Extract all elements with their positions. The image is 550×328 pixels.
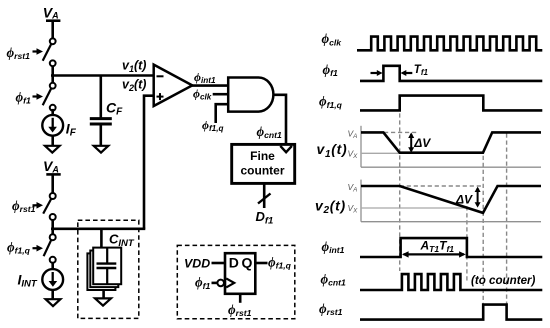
v1 VX gray line [361,152,483,154]
ground (under CINT) [95,298,111,305]
label VA (v2) [348,182,358,194]
power VA top [43,4,59,20]
label v1(t) [122,59,146,75]
svg-text:ΔV: ΔV [413,136,431,150]
waveform phi_clk [357,37,542,51]
waveform phi_f1q [360,96,542,111]
wire IINT to ground [51,290,54,299]
wire AND out to counter [273,95,286,145]
svg-text:v2(t): v2(t) [315,197,346,216]
svg-text:v1(t): v1(t) [122,59,146,75]
label IINT [18,271,38,289]
waveform phi_f1 [360,66,542,81]
power VA lower [43,158,59,174]
arrowhead into counter [280,146,292,152]
ground (under IF) [45,146,60,153]
label phi_rst1 top [7,45,44,61]
switch phi_f1 [43,83,56,111]
label CF [106,99,123,117]
wire to node 2 [51,220,54,234]
waveform v2 [361,186,541,213]
bus slash [258,194,271,204]
label phi_f1q [7,240,43,256]
v2 VA dashed [400,185,483,187]
ground (under CF) [94,146,109,153]
waveform phi_cnt1 [360,274,542,290]
label v1(t) row [317,141,348,160]
label VX (v1) [348,149,359,161]
v1 axis [361,126,541,167]
deltaV arrow v2 [475,187,481,208]
wire counter output [263,183,266,208]
label VX (v2) [348,203,359,215]
label VA (v1) [348,129,358,141]
ground (under IINT) [46,299,61,306]
wire DFF reset [239,294,242,303]
label phi_int1 (row) [322,239,345,255]
label phi_f1q (DFF out) [268,254,292,270]
wire horizontal node2 to riser [51,228,145,231]
arrow Tf1 left [371,70,383,76]
label VDD [184,257,210,271]
waveform v1 [361,132,541,152]
svg-text:(to counter): (to counter) [471,274,536,287]
clock bubble [217,280,224,287]
waveform phi_int1 [360,238,542,257]
svg-text:v2(t): v2(t) [122,78,146,94]
label Df1 [256,209,274,227]
v2 VX gray line [361,207,470,209]
label phi_clk [193,86,212,101]
wire to current source IF [51,109,54,115]
label v2(t) row [315,197,346,216]
label phi_f1q (AND input) [202,118,224,133]
capacitor CF [90,119,112,146]
waveform phi_rst1 [360,305,542,320]
svg-text:VDD: VDD [184,257,210,271]
dashed box CINT [78,220,139,318]
wire VA to switch rst1 lower [46,174,60,193]
label Tf1 [414,64,429,77]
arrow Tf1 right [401,70,413,76]
label phi_int1 [194,70,216,85]
v2 axis [361,180,541,222]
label AT1Tf1 [420,239,455,254]
label phi_f1q (row) [319,94,343,110]
wire phi_f1 to bubble [212,282,218,285]
wire Q out [255,262,267,265]
label IF [66,120,77,138]
wire op-amp out to AND [192,84,229,87]
switch phi_rst1 (lower) [43,193,56,220]
label deltaV v2 [455,192,473,206]
wire IF to ground [51,136,54,146]
wire main horizontal to op-amp minus [51,74,155,77]
label phi_f1 [16,90,44,106]
label CINT [109,232,135,250]
AND gate [228,78,273,112]
svg-text:counter: counter [240,163,284,177]
label phi_cnt1 [257,124,283,140]
label phi_f1 (DFF clock) [195,275,211,291]
label deltaV v1 [413,136,431,150]
svg-text:ΔV: ΔV [455,192,473,206]
capacitor CINT stack [87,248,121,290]
label phi_clk (row) [322,31,343,47]
switch phi_rst1 (top) [43,38,56,66]
arrow AT1Tf1 [402,251,466,257]
current source IF [42,115,63,136]
switch phi_f1q [44,234,56,263]
wire VDD to D [212,262,226,265]
dashed box DFF [177,245,294,318]
current source IINT [42,263,63,290]
label phi_f1 (row) [323,62,339,78]
dashed vertical at E [506,134,508,305]
v1 VA dashed [384,131,419,133]
wire f1q stub [216,104,229,123]
dashed vertical at D [482,156,484,309]
svg-text:Fine: Fine [250,149,275,163]
D flip-flop U2 [225,253,255,294]
label (to counter) [471,274,536,287]
label phi_rst1 (DFF reset) [228,302,252,318]
dashed vertical at C [466,206,468,281]
wire to node [51,66,54,83]
label v2(t) [122,78,146,94]
capacitor CF tap wire [100,76,103,118]
wire top lead CINT [100,229,103,248]
svg-text:v1(t): v1(t) [317,141,348,160]
op-amp U1 [154,65,193,106]
deltaV arrow v1 [408,132,414,152]
fine counter box [232,144,295,183]
wire clk stub [213,93,229,96]
wire bottom lead CINT [102,290,105,299]
wire VA to switch rst1 [46,21,60,39]
label phi_rst1 (row) [319,301,343,317]
label phi_rst1 lower [12,198,43,214]
svg-text:Q: Q [242,255,253,271]
label phi_cnt1 (row) [321,272,347,288]
svg-text:D: D [229,255,239,271]
wire riser to op-amp plus [144,96,155,229]
dashed vertical at B [399,113,401,271]
